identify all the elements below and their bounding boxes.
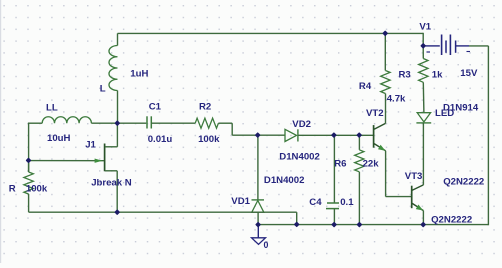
svg-text:L: L: [100, 84, 106, 95]
wire VD1 branch: [257, 135, 259, 200]
transistor VT2: [374, 123, 386, 150]
svg-text:V1: V1: [419, 21, 431, 32]
transistor VT3: [412, 185, 424, 225]
svg-text:Q2N2222: Q2N2222: [443, 177, 484, 188]
svg-text:VT3: VT3: [405, 171, 423, 182]
svg-text:C4: C4: [309, 197, 322, 208]
resistor R6: [355, 135, 364, 224]
diode VD1: [252, 200, 265, 225]
wire LED to VT3 collector: [422, 123, 424, 185]
wire right rail: [487, 46, 489, 225]
LED D1N914: [416, 113, 431, 123]
svg-text:VD2: VD2: [292, 119, 311, 130]
svg-text:4.7k: 4.7k: [387, 94, 406, 105]
resistor R4: [381, 33, 390, 123]
wire R2 to VD2 level: [218, 123, 285, 135]
wire VT2 emitter to VT3 base: [386, 151, 412, 197]
diode VD2: [285, 129, 374, 141]
svg-text:0: 0: [264, 240, 269, 250]
wire battery drop: [422, 33, 424, 46]
resistor R: [24, 161, 33, 213]
svg-text:100k: 100k: [198, 134, 220, 145]
svg-text:10uH: 10uH: [47, 133, 71, 144]
ground 0: [252, 225, 266, 245]
wire bottom rail left: [29, 212, 297, 224]
svg-text:1uH: 1uH: [130, 68, 148, 79]
svg-text:1k: 1k: [432, 70, 443, 81]
svg-text:Jbreak N: Jbreak N: [91, 178, 132, 189]
svg-text:C1: C1: [149, 101, 162, 112]
svg-text:R3: R3: [399, 70, 411, 81]
svg-text:D1N4002: D1N4002: [264, 175, 305, 186]
svg-text:22k: 22k: [363, 159, 380, 170]
svg-text:0.01u: 0.01u: [148, 134, 173, 145]
svg-text:15V: 15V: [460, 68, 478, 79]
jfet J1: [29, 123, 118, 212]
svg-text:0.1: 0.1: [340, 197, 354, 208]
svg-text:100k: 100k: [26, 183, 48, 194]
svg-text:R: R: [9, 183, 16, 194]
svg-text:D1N4002: D1N4002: [279, 151, 320, 162]
svg-text:J1: J1: [85, 139, 96, 150]
svg-text:LED: LED: [435, 108, 454, 119]
wire top rail: [118, 32, 424, 34]
resistor R3: [419, 46, 428, 113]
inductor L: [109, 33, 118, 123]
inductor LL: [28, 117, 146, 123]
svg-text:R2: R2: [199, 101, 211, 112]
svg-text:VT2: VT2: [366, 108, 384, 119]
svg-text:R6: R6: [334, 159, 346, 170]
svg-text:R4: R4: [359, 81, 372, 92]
capacitor C4: [326, 135, 339, 224]
svg-text:VD1: VD1: [231, 196, 250, 207]
svg-text:LL: LL: [46, 102, 58, 113]
resistor R2: [195, 118, 218, 128]
svg-text:Q2N2222: Q2N2222: [431, 215, 472, 226]
battery V1: [424, 35, 488, 56]
wire left column: [28, 123, 30, 172]
wire bottom rail right: [258, 224, 488, 226]
capacitor C1: [147, 116, 195, 128]
